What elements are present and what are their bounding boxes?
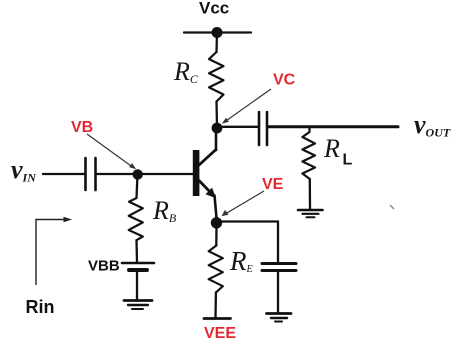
svg-text:R: R [323,134,340,163]
svg-text:Rin: Rin [26,297,55,317]
svg-text:VBB: VBB [88,258,120,275]
svg-text:VB: VB [71,119,93,136]
svg-text:L: L [343,152,353,169]
svg-text:VE: VE [262,176,284,193]
svg-text:VC: VC [273,72,296,89]
svg-text:Vcc: Vcc [199,0,229,18]
svg-text:VEE: VEE [204,325,236,342]
